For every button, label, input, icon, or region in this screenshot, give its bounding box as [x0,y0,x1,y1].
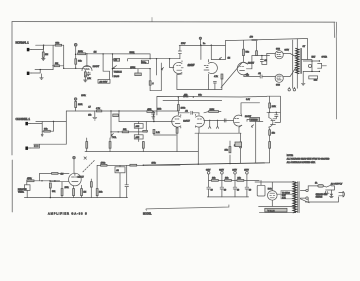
tube V3 12AX7 ch2 second half [195,114,204,127]
svg-text:22k: 22k [237,178,240,180]
svg-text:100k: 100k [181,107,186,109]
capacitor C4 slope box [113,58,120,61]
capacitor C8 box 0.005 lower [134,135,143,139]
wire down from R2 [60,45,84,68]
transformer T2 power primary winding [293,182,296,213]
node tone joins [149,58,150,59]
resistor R42 470k on ch2 rail [147,109,153,113]
wire ch1 jack2 bus [35,69,53,71]
svg-text:CHANNEL 1: CHANNEL 1 [16,117,31,121]
capacitor C3 treble box [141,60,148,64]
svg-text:12AX7: 12AX7 [188,64,195,67]
wire vertical x53 ch2 [53,122,55,132]
wire drops to main bus [198,121,255,164]
wire tone stack left rail [112,54,114,77]
node heater terminal B [293,87,295,91]
wire J3 tip to node [30,122,42,124]
capacitor C22 tail bypass [213,81,216,89]
wire x146 drop [145,122,147,132]
box V bias cell [265,208,287,212]
wire right stage mid line [267,111,281,113]
wire second drop [150,63,161,91]
wire vertical bus x53 [52,45,54,69]
wire B+ rail upper [225,39,307,41]
svg-text:.02: .02 [185,111,189,113]
wire OT top to B+ rail [296,39,298,49]
capacitor C12 grid lower 6V6 [244,73,262,78]
svg-text:CHASSIS GND: CHASSIS GND [316,193,328,196]
wire AC bottom [305,186,338,202]
svg-text:25k: 25k [88,115,91,117]
wire ch2 second grid line [204,119,234,121]
resistor R43 ch2 tail [153,129,160,135]
wire J2 tip [32,70,41,73]
node bus dots [198,164,199,165]
svg-text:VOL: VOL [112,137,117,139]
wire ch2 grid line [119,121,172,123]
svg-text:1M: 1M [94,52,97,54]
node PSU terminal 4 [244,170,249,181]
wire terminal to plate rail [75,46,77,54]
svg-text:1A: 1A [315,182,318,185]
label heater note [281,191,295,199]
resistor R26 trem osc a [52,173,64,176]
resistor R29 osc r1 [61,182,63,198]
capacitor C1 cathode bypass [85,72,90,76]
node drop dot [153,121,154,122]
wire stem to R15 [256,41,258,51]
wire grid upper [262,53,275,64]
node bias node [261,55,262,56]
resistor R22 trem series [130,164,137,166]
svg-text:20: 20 [224,189,226,191]
resistor R34 filter a [212,178,219,182]
jack J7 remote tremolo box [18,181,30,198]
wire V10 cathode [238,127,240,133]
node mid junctions [110,131,111,132]
wire channel1 input bus [36,44,54,46]
wire main ground bus lower [143,163,264,165]
wire bottom reference line [146,205,229,211]
ground ch2 grid [41,131,43,136]
resistor R40 right stage plate [269,96,276,112]
jack J1 (normal input 1) [27,48,32,51]
svg-text:OT: OT [303,46,306,48]
wire trem lower feed [50,181,69,183]
node rail dot [178,96,179,97]
svg-text:TREM.: TREM. [18,192,25,194]
resistor R2 68k (input mix) [53,42,64,46]
svg-text:68k: 68k [55,63,58,65]
wire PT bottom lead [259,212,295,214]
wire PSU ground bus [207,196,248,198]
resistor R5 100k plate rail [78,51,151,55]
wire coupling to PI row [150,58,180,60]
resistor R9 on jack2 lead [34,145,38,147]
wire ch2 interstage bottom [195,132,241,134]
capacitor C17 electrolytic 3 [233,180,239,197]
wire V4 grid [170,59,174,68]
svg-text:1M: 1M [83,192,86,194]
wire tone top rail 560k [102,52,135,54]
jack J4 channel input 2 [25,147,30,150]
wire diagonal PI cross coupling [221,62,242,87]
svg-text:AC SUPPLY: AC SUPPLY [331,182,343,185]
wire plate drop to V1 [86,54,88,67]
capacitor C10 PI input [178,45,181,59]
ground speaker [301,83,305,85]
node terminal ch2 plate feed [74,98,77,102]
node plate rail junction [86,53,87,54]
capacitor C7 box 0.005 [134,124,143,129]
potentiometer intensity wiper [251,125,253,127]
svg-text:ALL CONTROLS ROTATED MAX.: ALL CONTROLS ROTATED MAX. [287,161,316,164]
capacitor C13 trem box [115,165,125,173]
resistor R18 drop to bus a [86,138,88,152]
ground line w arrow [330,190,334,198]
svg-text:170V: 170V [181,43,186,45]
resistor R41 V12 cathode [269,130,275,142]
svg-text:.02 600V: .02 600V [99,81,108,83]
potentiometer wiper volume1 [161,68,163,70]
box intensity control [250,118,260,122]
node rail junction x111 [110,110,111,111]
capacitor C16 electrolytic 2 [220,180,226,197]
wire ch2 bottom link [154,134,176,136]
node bus dot [50,197,51,198]
wire J4 tip [30,144,39,148]
capacitor C11 grid upper 6V6 [260,56,267,65]
resistor R19 drop to bus b [109,138,111,152]
wire secondary out [302,59,313,61]
wire rectifier bottom [259,200,296,206]
node ch2 junction [53,121,54,122]
wire plate upper to OT [283,53,295,56]
wire box drop [119,173,121,198]
node ch1 grid junction [43,45,44,46]
svg-text:470k: 470k [147,109,151,111]
node dots y180.8 [41,180,42,181]
wire PI mix line [211,59,225,61]
tube V1 12AX7 dome [82,65,92,70]
wire heater rails [157,96,267,115]
wire V1 plate step to coupling box [103,54,109,80]
wire screen drop [292,40,294,88]
node heater rail dot [193,96,194,97]
node interstage dots [209,120,210,121]
svg-text:SWITCH: SWITCH [316,197,323,199]
resistor R4 68k grid [75,54,83,70]
capacitor C20 line cap [324,191,329,195]
node grid stopper terminal [74,43,77,46]
wire right bus ch2 [65,111,67,144]
capacitor C18 electrolytic 4 [245,180,251,197]
tube V6 6V6 upper [275,51,283,59]
resistor R12 plate ch2 [177,98,186,115]
resistor R32 osc r4 [90,179,92,198]
wire footswitch riser [39,173,41,180]
capacitor C2 coupling box with value [98,79,110,83]
capacitor C9 coupling ch2 .02 [178,111,199,115]
svg-text:68k: 68k [198,94,201,96]
svg-text:6V6: 6V6 [276,85,281,87]
svg-text:INTENS: INTENS [251,120,259,122]
svg-text:12AX7: 12AX7 [248,61,255,64]
transformer T1 core [300,48,301,73]
svg-text:ALL VOLTAGES READ WITH VTVM TO: ALL VOLTAGES READ WITH VTVM TO GROUND [287,158,330,161]
svg-text:.02: .02 [114,60,117,62]
tube V5 driver [237,62,247,77]
resistor R10 4.7k [96,108,102,112]
wire tone mid link [128,54,151,61]
svg-text:285V: 285V [232,170,237,172]
wire V12 grid from intensity [260,120,263,122]
transformer T2 core [298,182,299,213]
resistor R7 tail of stack [149,69,154,88]
resistor R15 plate PI b [256,51,258,56]
jack J2 (normal input 2) [27,72,32,75]
svg-text:10k: 10k [212,178,215,180]
resistor R35 filter b [225,178,232,182]
transformer T1 output primary winding [296,48,299,73]
potentiometer TREBLE wiper [113,66,122,74]
potentiometer PI pot wiper [219,57,221,59]
svg-text:SPKR: SPKR [322,56,328,58]
wire sec stub [307,198,309,202]
wire ch2 ground bus [85,151,198,153]
svg-text:365V: 365V [285,49,290,51]
svg-text:6.3V: 6.3V [246,99,251,101]
capacitor C21 interstage [224,119,226,122]
svg-text:1.5k: 1.5k [87,78,91,80]
wire speaker loop [303,61,319,71]
tube V7 6V6 lower [275,74,283,82]
plug P1 AC [339,191,345,197]
svg-text:320V: 320V [219,170,224,172]
svg-text:12AX7: 12AX7 [183,119,190,122]
potentiometer trem intensity arrows [209,120,219,128]
capacitor C14 box near bus [235,142,242,147]
wire PT secondary top [300,190,305,192]
ground below R1 [42,59,46,61]
svg-text:4.7: 4.7 [88,106,91,108]
node PSU terminal 3 [232,170,237,181]
border frame top edge [151,18,153,22]
svg-text:12AX7: 12AX7 [78,175,85,178]
svg-text:EXT: EXT [312,56,317,58]
capacitor C23 to ground on ch2 rail [88,106,97,120]
resistor R16 PI tail [214,74,223,90]
tube V12 half 12AX7 [269,112,276,130]
capacitor C5 bass box [135,69,142,76]
tube V10 12AX7 driver [233,114,242,127]
wire PSU filter bus [209,179,260,181]
resistor R24 drop x240 [234,133,242,148]
node rail junction x119 [118,110,119,111]
svg-text:22k: 22k [314,79,317,81]
svg-text:4.7k: 4.7k [214,76,218,78]
svg-text:250k: 250k [65,187,69,189]
svg-text:2.2k: 2.2k [156,132,160,134]
wire rectifier to PT [277,193,296,195]
wire interstage links [204,112,221,113]
wire PI cathode bus [177,75,222,90]
svg-text:MODEL: MODEL [143,212,152,215]
fuse F1 [308,182,323,191]
wire V10 plate [241,103,260,114]
svg-text:10k: 10k [225,149,228,151]
wire V5 plate link [246,56,252,69]
wire trem ground bus [24,197,127,199]
svg-text:1M: 1M [45,54,48,56]
tube V4 PI half a [173,61,183,75]
svg-text:20: 20 [237,189,239,191]
switch S1 power [323,185,334,187]
resistor R11 68k ch2 mid [111,129,146,133]
node PSU terminal 1 [206,170,211,181]
wire ground leg speaker [302,71,304,83]
jack J3 channel input 1 [25,122,30,125]
svg-text:250V: 250V [244,170,249,172]
wire ch2 to preamp rail [66,110,178,112]
wire OT bottom drop [296,74,298,89]
svg-text:.1: .1 [152,83,155,85]
resistor R8 grid 68k ch2 [42,129,53,133]
wire rail drop x225 [224,41,226,60]
resistor R36 filter c [237,178,244,182]
svg-text:10k: 10k [99,192,102,194]
wire rail end drop to jack [306,39,308,60]
svg-text:10k: 10k [272,132,275,134]
resistor R3 68k second input [52,63,59,67]
resistor R27 470k footswitch [27,178,34,182]
svg-text:BASS: BASS [114,75,120,78]
svg-text:AMPLIFIER GA-83 S: AMPLIFIER GA-83 S [48,211,88,215]
svg-text:325V: 325V [206,170,211,172]
svg-text:100k: 100k [81,95,85,97]
resistor R1 1M grid leak [42,45,48,58]
resistor R20 drop to bus c [142,142,144,152]
svg-text:12AX7: 12AX7 [93,65,100,68]
label X mark footswitch [84,157,86,159]
capacitor C6 box ch2 [111,111,119,132]
svg-text:10k: 10k [225,178,228,180]
resistor R14 plate PI [243,40,250,61]
capacitor C25 trem depth [125,165,129,197]
wire intensity drop [247,119,256,121]
svg-text:250k: 250k [152,163,156,165]
svg-text:220k: 220k [157,109,161,111]
capacitor C24 right stage [273,112,278,119]
wire cap column stems [138,122,140,142]
wire drops from PI rail [201,45,211,59]
svg-text:20: 20 [249,189,251,191]
wire plate lower to OT [283,68,295,77]
node heater terminal A [288,87,290,91]
wire ch2 jack2 bus [34,143,67,145]
resistor R44 small left [143,130,148,132]
wire V3 cathode drop [198,127,200,133]
resistor R25 right drop [265,142,271,163]
wire rectifier top lead [255,182,296,191]
wire PI out line y55.6 [252,55,270,57]
node trem line dot [143,165,144,166]
potentiometer VOLUME ch1 drop [156,59,158,75]
node speaker loop dots [311,60,312,61]
resistor R39 470 on rail [250,37,258,41]
svg-text:V 8 A 6: V 8 A 6 [268,209,276,212]
jack J6 speaker box [318,63,327,68]
svg-text:NOTE:: NOTE: [287,155,294,157]
svg-text:TREBLE: TREBLE [114,71,123,73]
svg-text:220k: 220k [78,104,82,106]
wire V3 grid from coupling [198,113,200,115]
capacitor C19 box right of PSU [257,180,265,196]
wire J1 tip to grid node [32,45,44,49]
border frame left edge [11,22,13,212]
ground V1 cathode [84,80,88,82]
svg-text:44k: 44k [246,75,249,77]
capacitor C15 electrolytic 1 [207,180,213,197]
wire grid drop [41,123,43,131]
tube V2 12AX7 ch2 half [172,115,181,128]
tube V9 rectifier [268,191,278,201]
wire connect vert x50 [49,180,51,183]
jack J5 speaker circle [308,64,311,67]
wire PI plate rail [179,45,225,47]
wire drop rail to grid line [153,111,155,122]
wire tone lower rail 250k [112,67,151,70]
resistor R30 osc r2 [73,186,75,198]
resistor R13 cathode ch2 [176,128,178,152]
resistor R31 osc r3 [81,185,87,197]
svg-text:56k: 56k [246,52,250,54]
potentiometer VOLUME ch2 [111,132,117,139]
resistor R23 10k drop [225,141,231,153]
wire right stage top feed [267,96,281,122]
capacitor C26 with ground [152,111,155,119]
node PI feed terminal [199,37,201,45]
wire ch2 input bus [36,121,67,123]
resistor R28 osc divider [49,183,55,198]
node trem plate terminal [73,156,76,173]
tube V11 PI half b [204,60,217,90]
wire dashed footswitch link [83,160,95,172]
svg-text:.02: .02 [258,73,262,75]
node PSU terminal 2 [219,170,224,181]
node right stage dots [269,112,270,113]
wire trem output line [97,164,180,166]
wire PT secondary bottom [300,197,305,199]
border frame right edge (doubled page scan edge) [334,22,336,119]
svg-text:6V6: 6V6 [276,49,281,51]
svg-text:NORMAL 1: NORMAL 1 [16,41,30,45]
wire AC drop diagonal [300,199,309,203]
svg-text:20: 20 [211,189,213,191]
tube V8 tremolo [69,173,82,186]
svg-text:470: 470 [250,37,254,39]
resistor R6 cathode 1.5k [84,70,86,80]
svg-text:1M: 1M [61,174,64,176]
node PI rail dots [200,45,201,46]
wire trem line y180.8 [34,180,60,182]
resistor R21 470k trem [101,163,108,167]
ground J2 [40,74,44,80]
wire trem left feed [40,172,69,174]
svg-text:68k: 68k [78,60,82,62]
svg-text:.02: .02 [116,170,120,172]
wire grid lower [262,76,275,78]
